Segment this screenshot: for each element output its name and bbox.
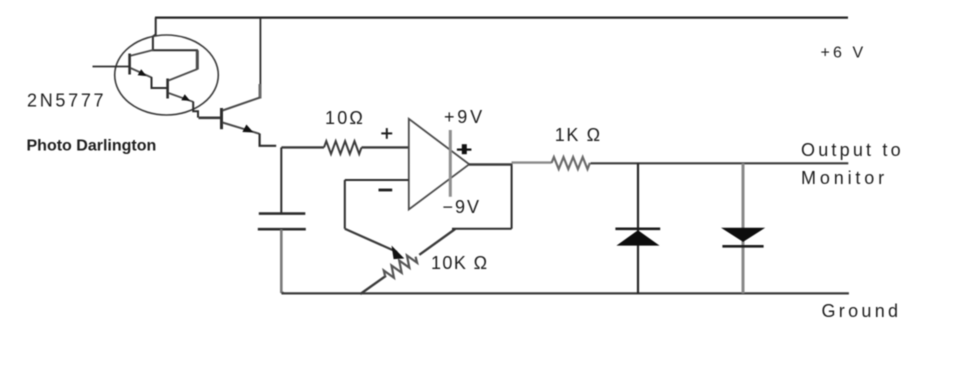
potentiometer wiper arrow bbox=[392, 246, 405, 260]
svg-text:10Ω: 10Ω bbox=[325, 108, 365, 128]
transistor Q3 base bar bbox=[220, 108, 223, 129]
wire rail down to Q3 collector bbox=[259, 18, 261, 85]
svg-text:+6 V: +6 V bbox=[821, 45, 867, 62]
darlington envelope ellipse bbox=[115, 35, 219, 115]
potentiometer R3 10K zigzag body bbox=[382, 252, 419, 281]
wire capacitor top lead bbox=[280, 147, 282, 213]
transistor Q2 collector bbox=[169, 69, 198, 81]
label - inverting bbox=[379, 189, 393, 192]
node input junction wire to 10 ohm resistor bbox=[281, 146, 324, 148]
label + output polarity bbox=[457, 144, 472, 154]
transistor Q1 collector bbox=[131, 50, 154, 56]
op-amp supply line bbox=[449, 130, 452, 197]
wire capacitor bottom lead to ground bbox=[281, 229, 283, 293]
svg-text:Monitor: Monitor bbox=[801, 168, 888, 188]
svg-text:Output to: Output to bbox=[801, 140, 904, 160]
wire op-amp output bbox=[469, 163, 513, 166]
transistor Q3 emitter arrow bbox=[242, 125, 253, 133]
wire inverting feedback left vertical bbox=[344, 180, 346, 229]
capacitor C1 top plate bbox=[259, 212, 306, 215]
wire feedback right vertical bbox=[511, 164, 513, 229]
wire wiper arm diagonal bbox=[345, 229, 397, 252]
wire diode D1 branch bbox=[637, 163, 639, 293]
op-amp U1 triangle bbox=[409, 119, 469, 210]
wire diode D2 branch bbox=[742, 163, 745, 293]
transistor Q1 base bar bbox=[128, 54, 131, 75]
wire Q3 collector stub bbox=[259, 84, 262, 99]
wire Q3 emitter down to input node bbox=[260, 134, 277, 146]
transistor Q1 emitter arrow bbox=[138, 69, 147, 76]
diode D2 triangle down bbox=[721, 228, 765, 242]
label + noninverting bbox=[381, 128, 392, 139]
potentiometer R3 10K lower lead bbox=[360, 276, 386, 294]
svg-text:Ground: Ground bbox=[822, 301, 902, 321]
svg-text:10K Ω: 10K Ω bbox=[431, 253, 488, 273]
wire collector bus inside darlington bbox=[152, 49, 198, 51]
svg-text:Photo Darlington: Photo Darlington bbox=[27, 138, 157, 155]
svg-text:−9V: −9V bbox=[443, 197, 482, 217]
wire feedback bottom horizontal bbox=[452, 228, 512, 230]
wire output node to 1K resistor bbox=[512, 161, 552, 163]
transistor Q3 emitter bbox=[223, 123, 260, 134]
transistor Q2 base bar bbox=[166, 79, 169, 99]
resistor R2 1K zigzag bbox=[552, 157, 590, 169]
wire Q1 emitter to Q2 base bbox=[152, 77, 167, 88]
diode D2 cathode bar bbox=[722, 245, 763, 248]
wire Q2 emitter to Q3 base bbox=[193, 102, 198, 118]
svg-text:1K Ω: 1K Ω bbox=[555, 125, 602, 145]
diode D1 triangle up bbox=[616, 230, 659, 245]
transistor Q3 collector bbox=[223, 98, 261, 111]
svg-text:+9V: +9V bbox=[444, 107, 485, 127]
wire +6V top rail bbox=[155, 17, 848, 19]
transistor Q2 emitter bbox=[169, 93, 194, 102]
svg-text:2N5777: 2N5777 bbox=[27, 91, 106, 111]
diode D1 cathode bar bbox=[615, 228, 660, 231]
wire 1K to output terminal bbox=[591, 162, 849, 164]
transistor Q1 emitter bbox=[131, 68, 152, 78]
wire inverting input bbox=[345, 179, 409, 181]
wire vertical drop to Q2 collector bbox=[196, 50, 199, 69]
capacitor C1 bottom plate bbox=[258, 228, 306, 231]
transistor Q1 base wire bbox=[93, 66, 129, 68]
resistor R1 10 ohm zigzag bbox=[324, 141, 362, 154]
wire ground rail bbox=[282, 292, 849, 294]
transistor Q3 base wire bbox=[199, 117, 221, 120]
wire 10 ohm to op-amp noninverting input bbox=[362, 146, 409, 148]
transistor Q2 emitter arrow bbox=[181, 94, 190, 101]
wire rail down to Q1 collector node bbox=[153, 18, 156, 51]
potentiometer R3 10K upper lead bbox=[419, 229, 455, 255]
